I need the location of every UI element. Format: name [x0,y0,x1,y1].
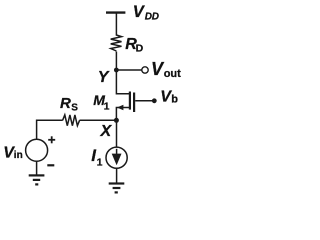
svg-text:in: in [14,150,23,161]
svg-text:D: D [136,42,144,54]
svg-text:1: 1 [104,100,110,112]
svg-text:Y: Y [98,69,110,86]
svg-text:S: S [71,102,78,113]
svg-text:b: b [171,94,178,106]
svg-text:out: out [164,68,181,80]
svg-text:DD: DD [145,12,159,23]
svg-text:R: R [60,95,71,112]
svg-text:X: X [100,123,113,140]
svg-text:1: 1 [97,156,103,168]
